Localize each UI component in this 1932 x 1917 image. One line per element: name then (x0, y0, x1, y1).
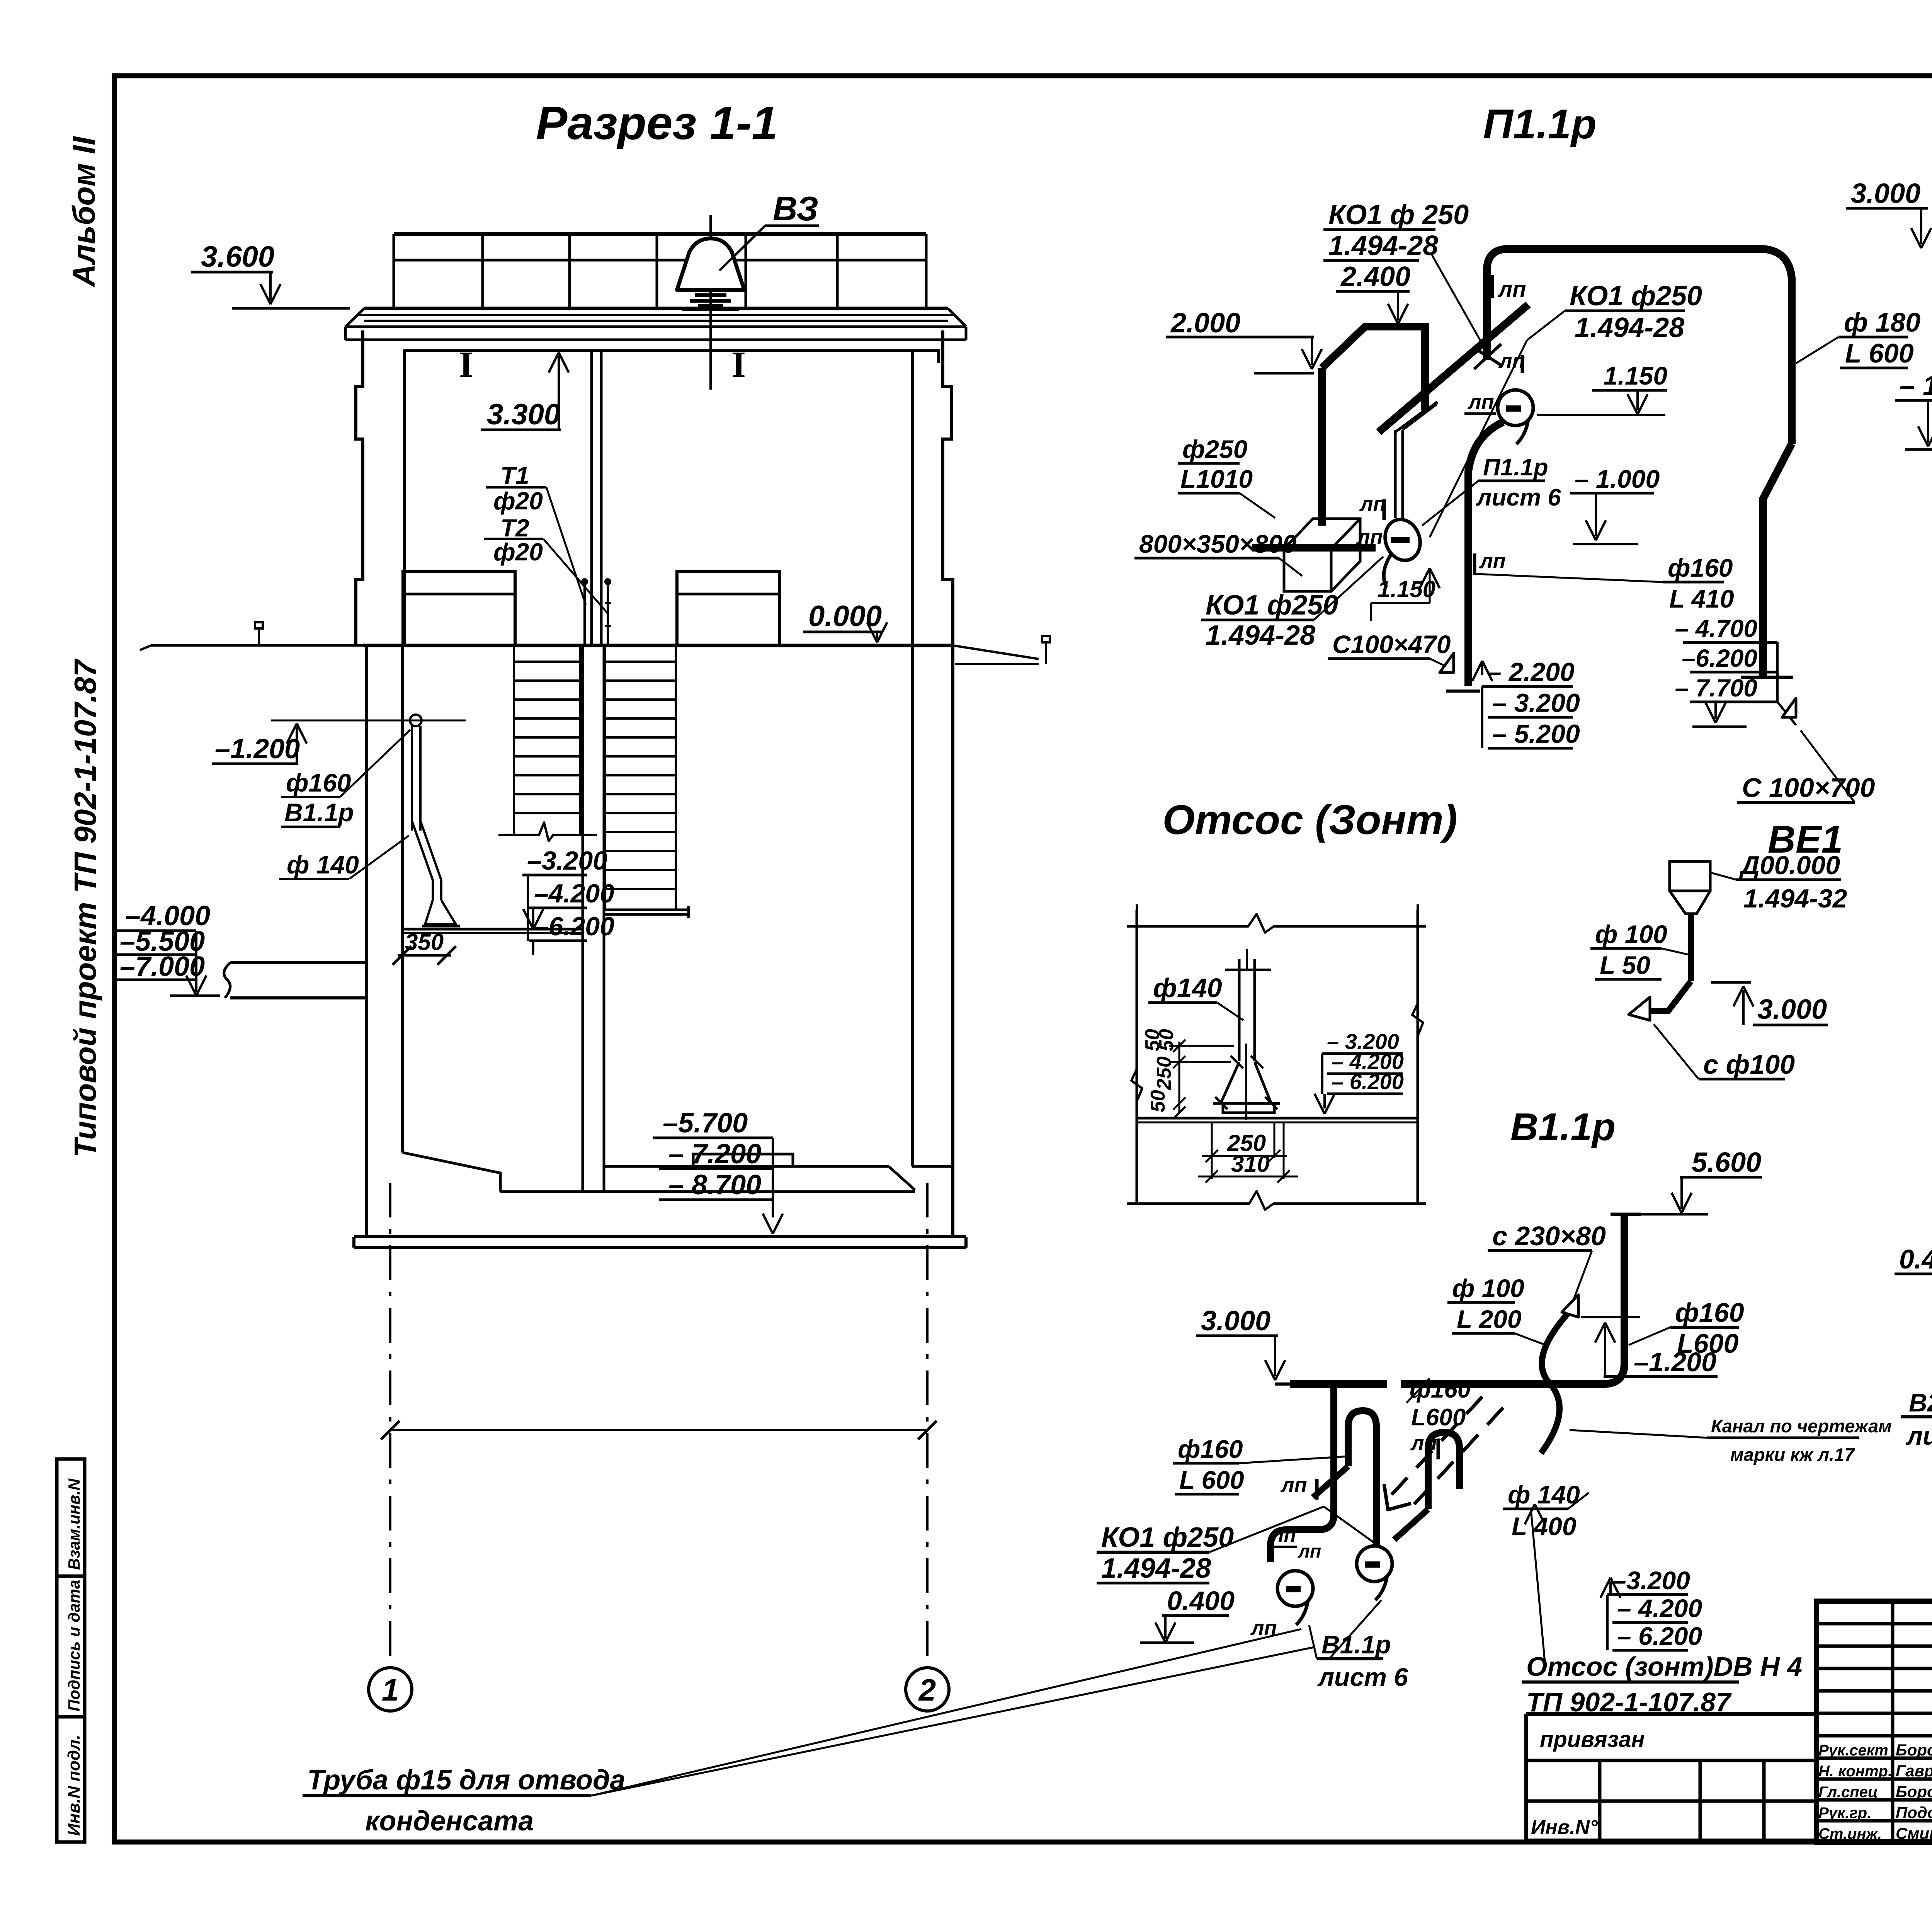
svg-text:1.494-28: 1.494-28 (1575, 312, 1684, 343)
svg-text:L600: L600 (1411, 1404, 1466, 1431)
svg-text:2.000: 2.000 (1170, 308, 1240, 339)
equipment pedestals (403, 571, 515, 645)
svg-text:Бородин: Бородин (1896, 1741, 1932, 1759)
svg-text:Смирнова: Смирнова (1896, 1824, 1932, 1842)
svg-text:Рук.сект: Рук.сект (1818, 1742, 1888, 1759)
V1.1r diagonals to fans (1313, 1466, 1348, 1497)
svg-text:–7.000: –7.000 (120, 951, 205, 982)
svg-text:Н. контр.: Н. контр. (1818, 1763, 1892, 1780)
svg-text:ВЗ: ВЗ (773, 189, 818, 228)
P1.1r open end ticks (1474, 348, 1501, 365)
P1.1r horizontal pipe f250 (1252, 544, 1376, 552)
svg-text:–6.200: –6.200 (1682, 644, 1757, 672)
underground walls (365, 645, 368, 1237)
ceiling line (405, 349, 939, 352)
P1.1r fan2 teardrop (1498, 390, 1533, 426)
svg-text:лп: лп (1479, 550, 1506, 573)
zont pipe (1238, 959, 1241, 1061)
svg-text:лп: лп (1298, 1541, 1321, 1562)
svg-text:L1010: L1010 (1180, 465, 1253, 493)
svg-text:Отсос (зонт)DВ Н 4: Отсос (зонт)DВ Н 4 (1526, 1651, 1802, 1682)
svg-text:–1.200: –1.200 (215, 734, 300, 764)
svg-text:3.600: 3.600 (201, 240, 274, 273)
svg-text:– 4.200: – 4.200 (1617, 1594, 1702, 1622)
V1.1r right riser (1401, 1214, 1624, 1384)
svg-text:1.494-28: 1.494-28 (1328, 230, 1438, 261)
axis dim line (390, 1429, 927, 1431)
svg-text:ф 180: ф 180 (1844, 307, 1920, 337)
svg-text:50: 50 (1147, 1090, 1169, 1112)
svg-text:ф160: ф160 (1675, 1297, 1744, 1328)
svg-text:ф 100: ф 100 (1452, 1274, 1524, 1302)
svg-text:лист 6: лист 6 (1476, 484, 1561, 511)
zont dims left (1179, 1042, 1180, 1113)
svg-text:ф20: ф20 (493, 487, 543, 515)
P1.1r drop pipe to -5.2 (1468, 422, 1503, 686)
interior divider wall (590, 351, 593, 645)
svg-text:Альбом II: Альбом II (66, 136, 102, 288)
svg-text:1.150: 1.150 (1604, 361, 1667, 390)
svg-text:с 230×80: с 230×80 (1492, 1221, 1606, 1251)
svg-text:ф 100: ф 100 (1595, 920, 1667, 948)
svg-text:Гл.спец: Гл.спец (1818, 1784, 1878, 1801)
V1.1r dashed channel (1386, 1397, 1482, 1501)
svg-text:В1.1р: В1.1р (1510, 1105, 1616, 1149)
stairs flight2 (604, 646, 606, 910)
svg-text:марки кж л.17: марки кж л.17 (1730, 1444, 1855, 1465)
svg-text:Отсос (Зонт): Отсос (Зонт) (1162, 796, 1457, 843)
svg-text:2: 2 (918, 1673, 936, 1707)
svg-text:– 1.000: – 1.000 (1575, 465, 1660, 493)
V1.1r U2 (1428, 1432, 1459, 1509)
svg-text:3.000: 3.000 (1757, 994, 1827, 1025)
svg-text:КО1 ф250: КО1 ф250 (1101, 1522, 1234, 1553)
svg-text:Подольская: Подольская (1896, 1803, 1932, 1822)
V1.1r pipe in section (410, 715, 422, 726)
svg-text:1.150: 1.150 (1378, 576, 1435, 602)
svg-text:ф 140: ф 140 (1508, 1480, 1580, 1509)
VE1 hopper (1670, 861, 1710, 891)
svg-text:– 4.700: – 4.700 (1675, 615, 1757, 642)
svg-text:Т1: Т1 (500, 461, 529, 489)
stairs flight1 (513, 646, 515, 835)
P1.1r duct riser (1394, 430, 1397, 518)
column axes (389, 1183, 391, 1668)
svg-text:Подпись и дата: Подпись и дата (65, 1580, 83, 1711)
svg-text:I: I (731, 344, 746, 385)
svg-text:ф160: ф160 (1668, 553, 1733, 582)
svg-text:L 200: L 200 (1457, 1305, 1522, 1333)
svg-text:1.494-28: 1.494-28 (1206, 620, 1315, 651)
P1.1r lp labels top (1491, 275, 1494, 298)
svg-text:Типовой проект ТП 902-1-107.87: Типовой проект ТП 902-1-107.87 (68, 658, 102, 1158)
title block left extension (1526, 1712, 1816, 1716)
svg-text:0.400: 0.400 (1899, 1244, 1932, 1274)
svg-text:– 6.200: – 6.200 (1617, 1622, 1702, 1650)
svg-text:L 410: L 410 (1669, 584, 1734, 613)
svg-text:2.400: 2.400 (1340, 261, 1410, 292)
svg-text:ф20: ф20 (493, 538, 543, 566)
svg-text:–3.200: –3.200 (527, 846, 607, 875)
tank bottom (403, 1153, 500, 1192)
svg-text:250: 250 (1153, 1056, 1175, 1090)
svg-text:–1.200: –1.200 (1634, 1347, 1716, 1377)
svg-text:с ф100: с ф100 (1703, 1049, 1795, 1079)
svg-text:лист 6: лист 6 (1317, 1663, 1408, 1691)
svg-text:0.400: 0.400 (1167, 1586, 1235, 1616)
svg-text:I: I (459, 344, 473, 385)
zont ticks funnel (1231, 1056, 1243, 1068)
roof slab (364, 307, 948, 310)
svg-text:1: 1 (382, 1673, 399, 1707)
svg-text:лп: лп (1359, 492, 1386, 516)
svg-text:Труба ф15 для отвода: Труба ф15 для отвода (307, 1765, 626, 1796)
V1.1r fan upper (1357, 1546, 1392, 1582)
svg-text:Бородин: Бородин (1896, 1783, 1932, 1801)
svg-text:– 6.200: – 6.200 (1332, 1069, 1404, 1094)
zont funnel (1221, 1062, 1271, 1103)
svg-text:Разрез 1-1: Разрез 1-1 (536, 97, 778, 149)
svg-text:310: 310 (1231, 1151, 1270, 1177)
svg-text:3.000: 3.000 (1851, 178, 1920, 209)
svg-text:5.600: 5.600 (1692, 1147, 1761, 1178)
foundation slab (354, 1235, 966, 1238)
svg-text:Инв.N подл.: Инв.N подл. (65, 1735, 83, 1836)
svg-text:конденсата: конденсата (365, 1806, 534, 1837)
svg-text:лп: лп (1497, 277, 1526, 302)
svg-text:лп: лп (1356, 526, 1383, 549)
svg-text:–3.200: –3.200 (1612, 1566, 1690, 1595)
ground floor line (363, 644, 953, 647)
svg-text:1.494-28: 1.494-28 (1101, 1553, 1211, 1584)
V1.1r drop from run (1270, 1384, 1334, 1562)
svg-text:–4.200: –4.200 (534, 879, 614, 908)
right grade (953, 645, 1039, 659)
vent VZ axis (709, 215, 712, 390)
svg-text:привязан: привязан (1540, 1727, 1645, 1752)
svg-text:Рук.гр.: Рук.гр. (1818, 1805, 1871, 1822)
svg-text:– 5.200: – 5.200 (1492, 719, 1580, 749)
svg-text:лп: лп (1270, 1524, 1296, 1547)
svg-text:50: 50 (1141, 1029, 1164, 1051)
svg-text:3.000: 3.000 (1201, 1306, 1270, 1336)
svg-text:–6.200: –6.200 (534, 912, 614, 941)
P1.1r top run (1487, 249, 1792, 444)
svg-text:L 400: L 400 (1512, 1512, 1577, 1541)
svg-text:ф160: ф160 (1178, 1435, 1243, 1463)
svg-text:350: 350 (405, 929, 444, 955)
vent VZ deflector (677, 238, 744, 290)
svg-text:лп: лп (1467, 390, 1494, 414)
zont floor (1137, 1117, 1418, 1120)
svg-text:L 600: L 600 (1179, 1466, 1244, 1494)
svg-text:L 600: L 600 (1845, 338, 1914, 368)
svg-text:С 100×700: С 100×700 (1742, 773, 1875, 803)
title block left table (1891, 1601, 1895, 1842)
title block outer (1816, 1601, 1932, 1842)
svg-text:Взам.инв.N: Взам.инв.N (65, 1478, 83, 1570)
V1.1r fan lower (1277, 1571, 1313, 1606)
svg-text:– 7.200: – 7.200 (668, 1139, 761, 1170)
svg-text:L 50: L 50 (1600, 951, 1650, 979)
svg-text:1.494-32: 1.494-32 (1743, 884, 1847, 913)
svg-text:Ст.инж.: Ст.инж. (1818, 1825, 1882, 1842)
V1.1r curved f100 pipe (1541, 1313, 1568, 1453)
svg-text:3.300: 3.300 (487, 398, 560, 431)
svg-text:Канал по чертежам: Канал по чертежам (1711, 1416, 1892, 1436)
svg-text:800×350×800: 800×350×800 (1139, 529, 1297, 558)
P1.1r box 800x350x800 (1284, 519, 1360, 591)
svg-text:Д00.000: Д00.000 (1739, 851, 1840, 880)
svg-text:ф140: ф140 (1153, 973, 1222, 1003)
svg-text:– 8.700: – 8.700 (668, 1170, 761, 1200)
svg-text:лист 6: лист 6 (1906, 1422, 1932, 1450)
svg-text:П1.1р: П1.1р (1483, 454, 1548, 481)
svg-text:КО1 ф250: КО1 ф250 (1570, 281, 1702, 312)
svg-text:КО1 ф 250: КО1 ф 250 (1328, 199, 1469, 230)
P1.1r fan1 ellipse (1379, 514, 1426, 565)
sump floor (403, 928, 583, 931)
svg-text:лп: лп (1280, 1473, 1307, 1496)
svg-text:В1.1р: В1.1р (284, 798, 354, 827)
margin stamp boxes (57, 1459, 85, 1576)
svg-text:– 2.200: – 2.200 (1487, 657, 1575, 687)
roof railing (394, 232, 926, 236)
svg-text:– 3.200: – 3.200 (1492, 688, 1580, 718)
svg-text:– 7.700: – 7.700 (1675, 674, 1757, 702)
P1.1r big diagonal (1379, 305, 1528, 432)
V1.1r run left part (1290, 1380, 1387, 1388)
P1.1r right lower pipe (1763, 444, 1792, 677)
svg-text:ф250: ф250 (1182, 435, 1248, 463)
T1 T2 risers (583, 582, 586, 645)
svg-text:ф 140: ф 140 (287, 850, 359, 879)
svg-text:– 1.000: – 1.000 (1900, 370, 1932, 401)
zont frame lines (1136, 910, 1138, 1204)
P1.1r loop assembly (1318, 368, 1326, 526)
svg-text:П1.1р: П1.1р (1483, 100, 1597, 147)
svg-text:–5.700: –5.700 (663, 1108, 748, 1139)
svg-text:ТП 902-1-107.87: ТП 902-1-107.87 (1526, 1687, 1732, 1717)
VE1 pipe (1688, 914, 1694, 981)
svg-text:В2.2р: В2.2р (1909, 1388, 1932, 1417)
zont bottom dims (1211, 1123, 1213, 1179)
inlet pipe (230, 961, 366, 964)
V1.1r U1 (1348, 1411, 1376, 1545)
svg-text:ф160: ф160 (286, 768, 351, 797)
svg-text:С100×470: С100×470 (1332, 630, 1451, 659)
axis bubbles (369, 1668, 412, 1711)
building outline (356, 330, 363, 645)
svg-text:Инв.N°: Инв.N° (1531, 1816, 1598, 1839)
svg-text:Гаврилюк: Гаврилюк (1896, 1762, 1932, 1780)
